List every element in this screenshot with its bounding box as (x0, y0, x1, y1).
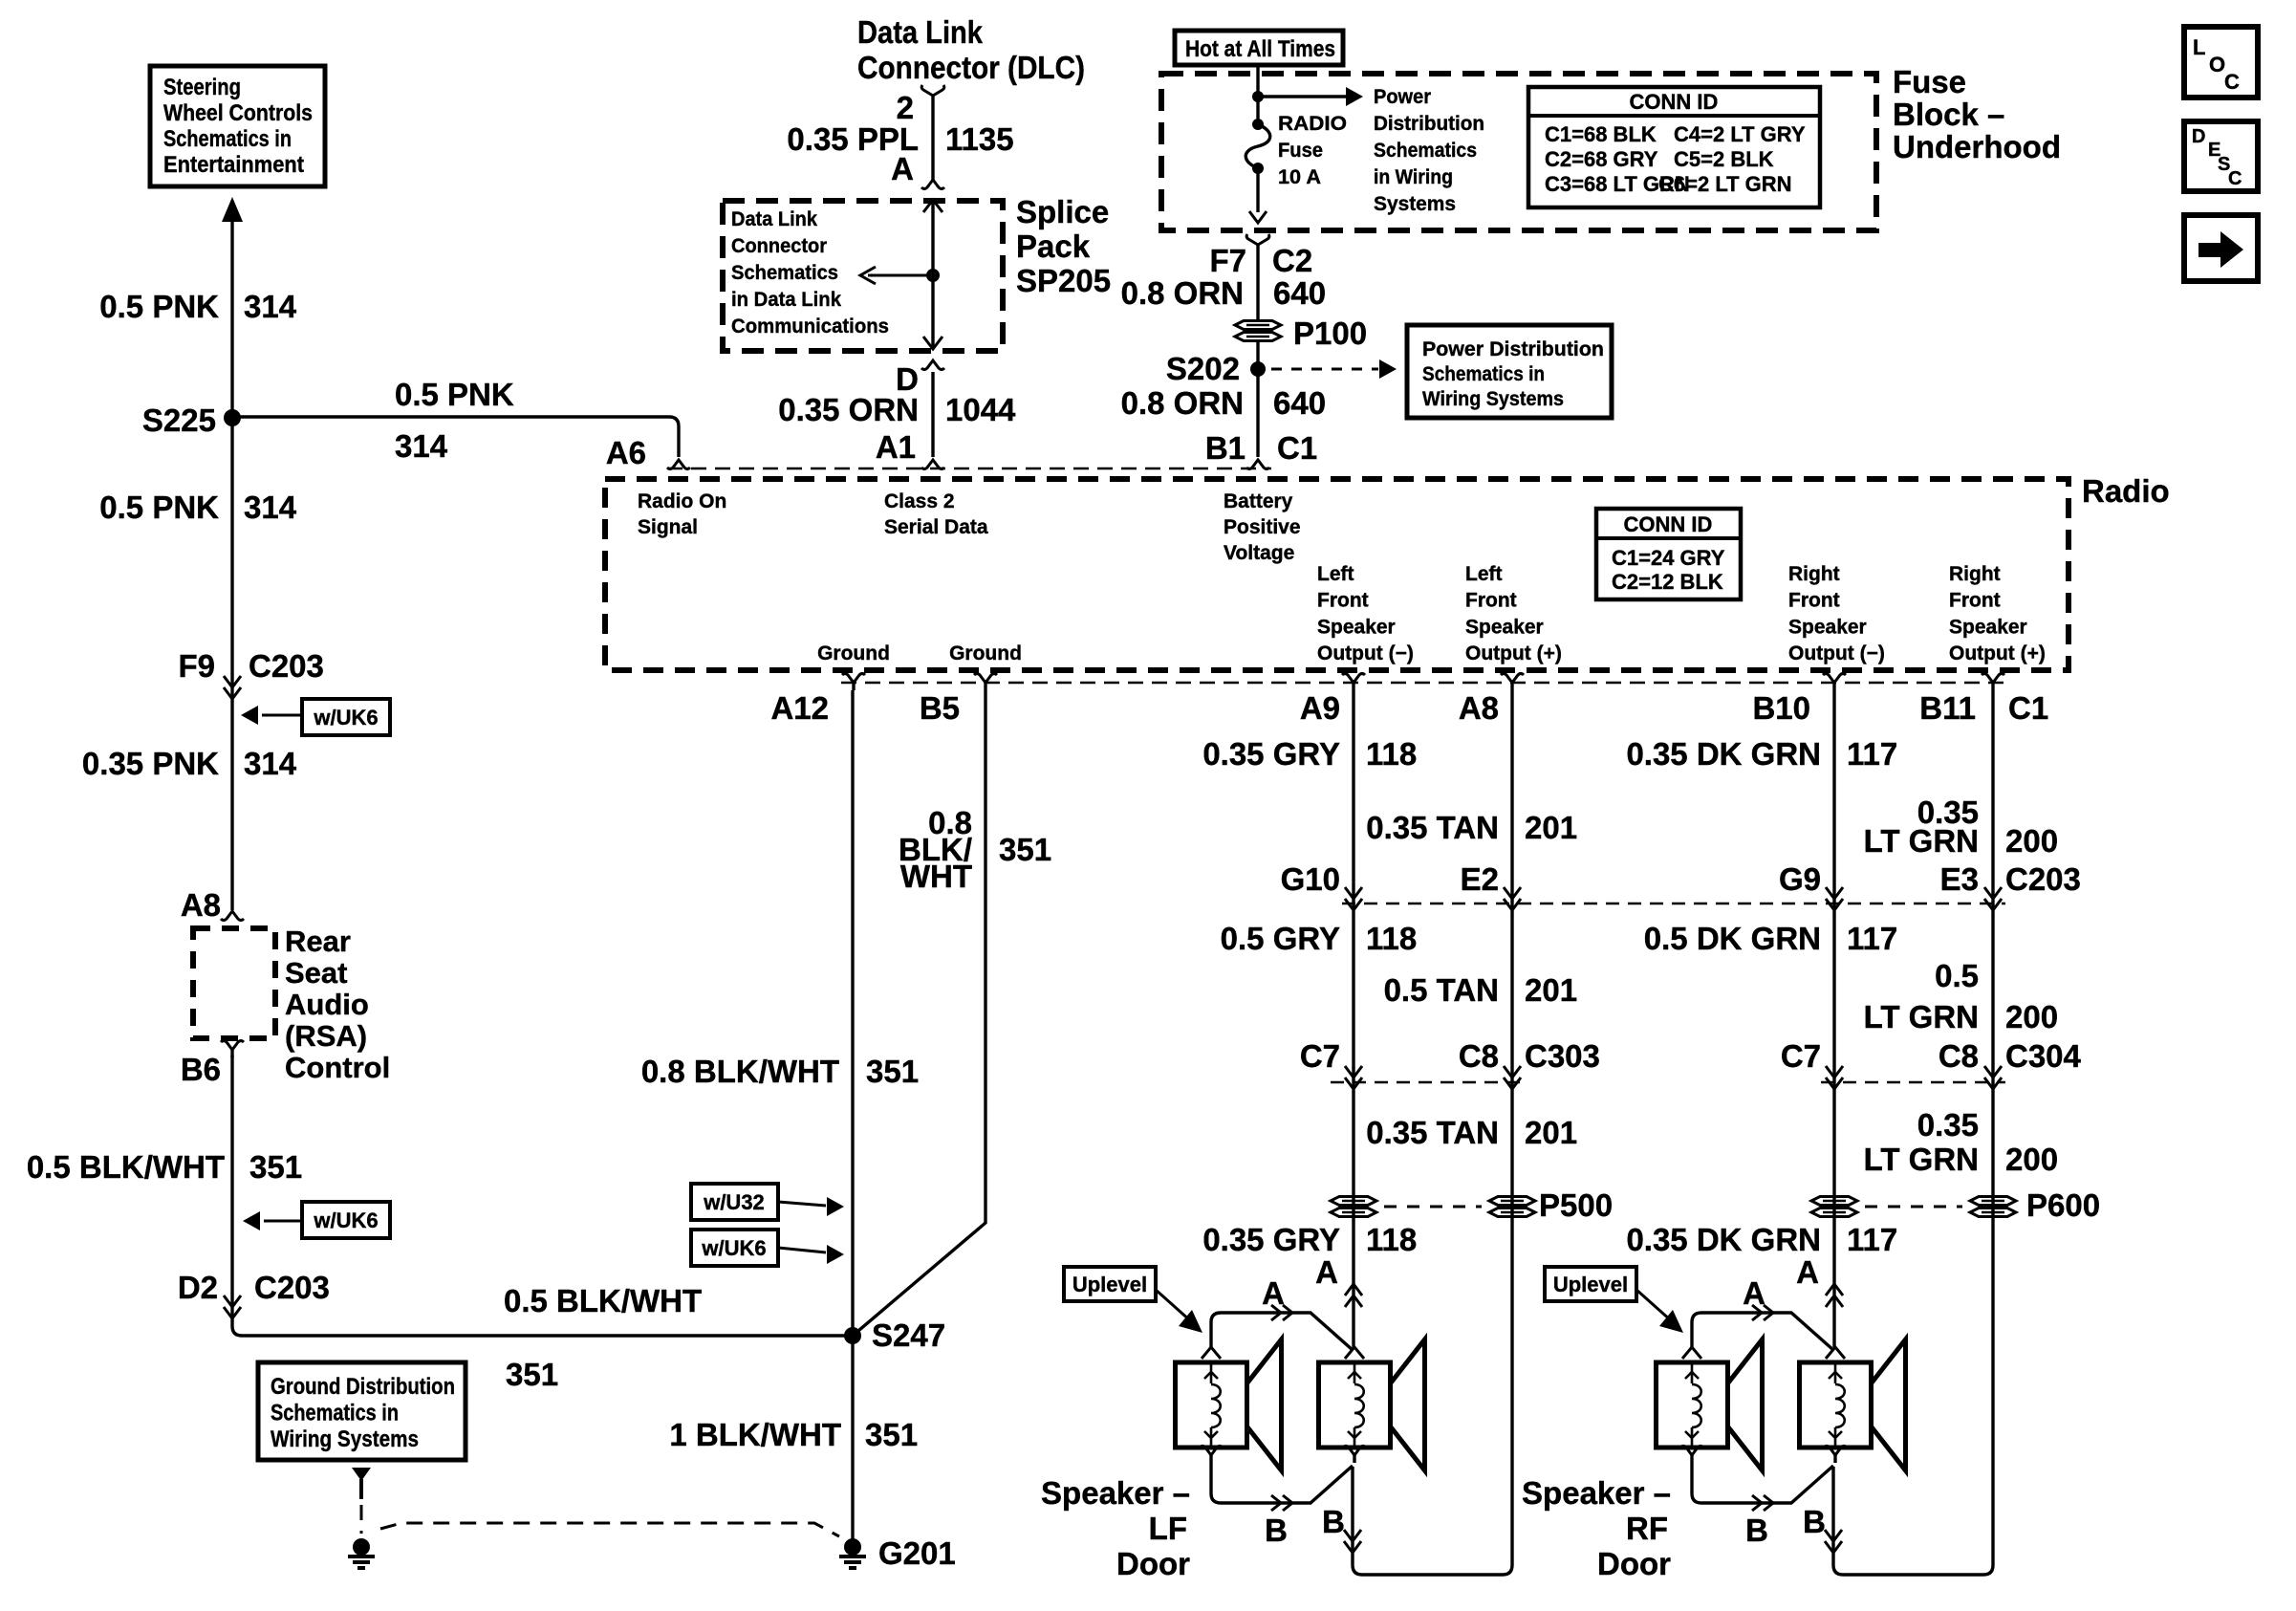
svg-text:Class 2: Class 2 (884, 490, 955, 512)
svg-text:C2: C2 (1272, 243, 1312, 278)
svg-text:Ground Distribution: Ground Distribution (271, 1374, 455, 1400)
connector C303 dashed line (1331, 1081, 1526, 1084)
svg-text:1044: 1044 (945, 392, 1016, 427)
svg-text:Hot at All Times: Hot at All Times (1185, 36, 1335, 62)
svg-text:Rear: Rear (285, 925, 351, 958)
svg-text:A: A (891, 151, 914, 186)
svg-text:w/UK6: w/UK6 (313, 706, 378, 729)
svg-text:A6: A6 (606, 435, 646, 470)
svg-text:B5: B5 (920, 690, 960, 726)
pin B10 (1823, 674, 1846, 684)
svg-text:G201: G201 (878, 1535, 956, 1571)
svg-text:Wiring Systems: Wiring Systems (1422, 388, 1564, 410)
box: Fuse Block - Underhood (dashed) (1161, 74, 1876, 230)
svg-text:Radio On: Radio On (638, 490, 726, 512)
C304 chevrons B11 (1984, 1066, 2002, 1078)
svg-text:in Wiring: in Wiring (1374, 166, 1453, 188)
svg-text:C: C (2224, 70, 2240, 94)
pin 2 of DLC (921, 85, 944, 96)
svg-text:Uplevel: Uplevel (1553, 1273, 1628, 1296)
svg-text:C1: C1 (2008, 690, 2048, 726)
svg-text:Output (−): Output (−) (1788, 642, 1885, 664)
svg-text:G9: G9 (1779, 861, 1821, 897)
svg-text:P600: P600 (2026, 1187, 2100, 1223)
svg-text:B11: B11 (1919, 690, 1976, 726)
svg-text:A12: A12 (770, 690, 829, 726)
wire: splice pack to radio A1 (931, 372, 934, 457)
svg-text:P100: P100 (1293, 316, 1367, 351)
LF branch wire to left speaker (1211, 1313, 1353, 1350)
svg-text:Power Distribution: Power Distribution (1422, 338, 1604, 360)
svg-text:0.35: 0.35 (1917, 1107, 1979, 1143)
wire: P100 to radio B1 (1256, 340, 1259, 457)
svg-text:Schematics in: Schematics in (1422, 363, 1545, 385)
chevrons A on B10 wire (1826, 1284, 1843, 1295)
chevron into LF door speaker (1202, 1347, 1221, 1359)
ground G201 (844, 1538, 861, 1556)
svg-text:Ground: Ground (949, 642, 1022, 664)
svg-text:351: 351 (999, 832, 1051, 867)
svg-text:Schematics in: Schematics in (163, 126, 292, 152)
connector C203 chevrons on F9 wire (224, 676, 241, 687)
connector C304 dashed line (1821, 1081, 2005, 1084)
chevron into RF uplevel speaker (1826, 1347, 1845, 1359)
C203 chevrons A8 (1504, 887, 1521, 899)
svg-text:C2=12 BLK: C2=12 BLK (1612, 570, 1723, 594)
wire: A8 speaker output down and across (1353, 690, 1512, 1575)
svg-text:S247: S247 (872, 1317, 945, 1353)
svg-text:0.5 BLK/WHT: 0.5 BLK/WHT (504, 1283, 702, 1318)
svg-text:C4=2 LT GRY: C4=2 LT GRY (1674, 122, 1806, 146)
svg-text:Entertainment: Entertainment (163, 152, 304, 178)
pin B6 on RSA box (221, 1041, 244, 1051)
svg-text:B: B (1322, 1504, 1345, 1539)
RF B branch wire (1692, 1463, 1833, 1503)
C203 chevrons B11 (1984, 887, 2002, 899)
svg-text:C203: C203 (254, 1270, 330, 1305)
svg-text:E2: E2 (1461, 861, 1499, 897)
chevrons B on RF main wire (1825, 1530, 1842, 1541)
svg-text:Wheel Controls: Wheel Controls (163, 100, 313, 126)
connector P500 (1331, 1197, 1376, 1206)
wire: radio B5 ground wire, jog to S247 (853, 690, 986, 1336)
svg-text:Block –: Block – (1893, 97, 2004, 132)
junction dot (fuse feed) (1252, 91, 1264, 102)
svg-text:w/UK6: w/UK6 (313, 1208, 378, 1232)
arrow down from ground distribution box (352, 1468, 371, 1481)
svg-text:314: 314 (244, 490, 297, 525)
svg-text:0.5 DK GRN: 0.5 DK GRN (1644, 921, 1821, 956)
svg-text:351: 351 (865, 1417, 918, 1452)
box: Radio (dashed) (605, 479, 2069, 670)
arrow from w/UK6 to A12 wire (778, 1248, 826, 1252)
C303 chevrons A8 (1504, 1066, 1521, 1078)
pin F7 C2 (1246, 234, 1269, 245)
thin connector line below radio box (841, 682, 2007, 685)
svg-text:E3: E3 (1940, 861, 1979, 897)
arrow to schematics text in splice pack (868, 274, 933, 277)
svg-text:10 A: 10 A (1278, 166, 1321, 188)
svg-text:Uplevel: Uplevel (1072, 1273, 1147, 1296)
svg-text:C: C (2228, 168, 2242, 189)
splice S247 (844, 1327, 861, 1344)
svg-text:C203: C203 (2005, 861, 2081, 897)
svg-text:Distribution: Distribution (1374, 113, 1484, 135)
svg-text:Communications: Communications (731, 316, 889, 337)
svg-text:0.35 ORN: 0.35 ORN (778, 392, 919, 427)
svg-text:A8: A8 (1459, 690, 1499, 726)
svg-text:C304: C304 (2005, 1038, 2082, 1074)
svg-text:118: 118 (1366, 1222, 1417, 1257)
svg-text:RADIO: RADIO (1278, 113, 1347, 135)
chevrons A on A9 wire (1345, 1284, 1362, 1295)
RF door speaker (1657, 1362, 1728, 1448)
svg-text:314: 314 (395, 428, 448, 464)
chevron into LF uplevel speaker (1345, 1347, 1364, 1359)
svg-text:0.5 PNK: 0.5 PNK (395, 377, 514, 412)
svg-text:A: A (1796, 1254, 1819, 1290)
RF uplevel speaker (1800, 1362, 1872, 1448)
wire: S225 to A6 pin (232, 417, 679, 457)
svg-text:Signal: Signal (638, 516, 698, 538)
svg-text:Data Link: Data Link (857, 14, 984, 50)
svg-text:F7: F7 (1209, 243, 1246, 278)
svg-text:Power: Power (1374, 86, 1431, 108)
svg-text:A: A (1315, 1254, 1338, 1290)
svg-text:Positive: Positive (1224, 516, 1301, 538)
pin below RF uplevel speaker (1824, 1447, 1847, 1456)
pin B11 (1982, 674, 2004, 684)
svg-text:0.8 ORN: 0.8 ORN (1121, 275, 1244, 311)
fuse RADIO 10A (1252, 119, 1264, 130)
box: Splice Pack SP205 (723, 201, 1003, 351)
connector C203 chevrons on D2 wire (224, 1295, 241, 1307)
box w/U32 (691, 1184, 778, 1220)
svg-text:Right: Right (1788, 563, 1840, 585)
svg-text:w/U32: w/U32 (703, 1190, 765, 1214)
connector P600 (1811, 1197, 1857, 1206)
svg-text:P500: P500 (1539, 1187, 1613, 1223)
svg-text:A9: A9 (1300, 690, 1340, 726)
RF branch wire to left speaker (1692, 1313, 1833, 1350)
LF uplevel speaker (1319, 1362, 1391, 1448)
svg-text:351: 351 (506, 1357, 558, 1392)
svg-text:LF: LF (1149, 1511, 1187, 1546)
chevron into RF door speaker (1682, 1347, 1701, 1359)
box w/UK6 lower-left (302, 1202, 390, 1238)
svg-text:Steering: Steering (163, 75, 241, 100)
svg-text:LT GRN: LT GRN (1864, 823, 1979, 859)
svg-text:Voltage: Voltage (1224, 542, 1294, 564)
svg-text:118: 118 (1366, 736, 1417, 772)
svg-text:1135: 1135 (945, 121, 1014, 157)
svg-text:Schematics in: Schematics in (271, 1401, 399, 1426)
svg-text:C8: C8 (1939, 1038, 1979, 1074)
svg-text:0.8 ORN: 0.8 ORN (1121, 385, 1244, 421)
svg-text:Front: Front (1317, 590, 1369, 612)
svg-text:S225: S225 (142, 403, 216, 438)
C203 chevrons B10 (1826, 887, 1843, 899)
wire: fuse to F7 (1256, 168, 1259, 212)
svg-text:D2: D2 (178, 1270, 218, 1305)
box w/UK6 upper (302, 699, 390, 735)
box: Steering Wheel Controls Schematics in Entertainment (150, 66, 325, 186)
pin A6 (667, 460, 690, 469)
svg-text:Door: Door (1597, 1546, 1671, 1581)
svg-text:C5=2 BLK: C5=2 BLK (1674, 147, 1774, 171)
svg-text:0.5: 0.5 (1935, 958, 1979, 993)
svg-text:Speaker –: Speaker – (1522, 1475, 1671, 1511)
splice S202 (1250, 361, 1266, 377)
svg-text:D: D (2192, 126, 2205, 147)
box: Power Distribution Schematics in Wiring Systems (1407, 325, 1612, 418)
dashed link to ground symbols (360, 1505, 363, 1534)
icon arrow (2184, 215, 2258, 281)
svg-text:C203: C203 (249, 648, 324, 684)
svg-text:Front: Front (1465, 590, 1517, 612)
icon LOC (2184, 27, 2258, 98)
box: Hot at All Times (1175, 31, 1343, 65)
svg-text:117: 117 (1847, 736, 1897, 772)
svg-text:B: B (1745, 1513, 1768, 1548)
svg-text:C7: C7 (1781, 1038, 1821, 1074)
svg-text:RF: RF (1626, 1511, 1668, 1546)
svg-text:B: B (1265, 1513, 1288, 1548)
C203 chevrons A9 (1345, 887, 1362, 899)
svg-text:Connector (DLC): Connector (DLC) (857, 50, 1085, 85)
wire: B11 speaker output down and across (1833, 690, 1993, 1575)
box Uplevel (LF) (1064, 1267, 1156, 1301)
svg-text:0.35 TAN: 0.35 TAN (1366, 1115, 1499, 1150)
svg-text:Speaker: Speaker (1465, 616, 1544, 638)
box: Rear Seat Audio (RSA) Control (193, 928, 275, 1038)
svg-text:S202: S202 (1166, 351, 1240, 386)
svg-text:Output (−): Output (−) (1317, 642, 1414, 664)
svg-text:B1: B1 (1205, 430, 1245, 466)
svg-text:Ground: Ground (817, 642, 890, 664)
svg-text:200: 200 (2005, 999, 2058, 1034)
svg-text:F9: F9 (178, 648, 215, 684)
svg-text:Left: Left (1317, 563, 1354, 585)
arrow from w/UK6 to wire (262, 714, 302, 717)
svg-text:A1: A1 (876, 429, 916, 465)
svg-text:117: 117 (1847, 921, 1897, 956)
svg-text:Speaker: Speaker (1949, 616, 2027, 638)
svg-text:117: 117 (1847, 1222, 1897, 1257)
svg-text:201: 201 (1525, 1115, 1577, 1150)
thin connector line above radio box (667, 468, 1271, 470)
wire: S247 down to G201 (851, 1336, 854, 1541)
svg-text:in Data Link: in Data Link (731, 289, 841, 311)
svg-text:0.35 DK GRN: 0.35 DK GRN (1626, 736, 1821, 772)
svg-text:w/UK6: w/UK6 (701, 1236, 766, 1260)
svg-text:Schematics: Schematics (731, 262, 838, 284)
svg-text:Door: Door (1116, 1546, 1190, 1581)
svg-text:Output (+): Output (+) (1465, 642, 1562, 664)
svg-text:CONN ID: CONN ID (1630, 90, 1719, 114)
svg-text:0.5 PNK: 0.5 PNK (99, 490, 219, 525)
svg-text:Splice: Splice (1016, 194, 1109, 229)
pin below LF uplevel speaker (1343, 1447, 1366, 1456)
svg-text:CONN ID: CONN ID (1624, 512, 1713, 536)
svg-text:Speaker: Speaker (1788, 616, 1867, 638)
svg-text:C2=68 GRY: C2=68 GRY (1545, 147, 1658, 171)
svg-text:351: 351 (249, 1149, 302, 1185)
svg-text:640: 640 (1273, 275, 1326, 311)
arrow from w/UK6 lower to wire (264, 1220, 302, 1223)
svg-text:0.35 GRY: 0.35 GRY (1202, 736, 1340, 772)
wire: B10 speaker output down to RF speakers (1832, 690, 1835, 1347)
pin B5 (974, 674, 997, 684)
C303 chevrons A9 (1345, 1066, 1362, 1078)
chevrons on RF B branch (1752, 1495, 1762, 1511)
pin below RF door speaker (1680, 1447, 1703, 1456)
svg-text:314: 314 (244, 289, 297, 324)
svg-text:WHT: WHT (900, 859, 972, 894)
svg-text:Schematics: Schematics (1374, 140, 1477, 162)
box: Ground Distribution Schematics in Wiring Systems (258, 1362, 466, 1460)
wire: hot feed into fuse block (1256, 65, 1259, 124)
svg-text:SP205: SP205 (1016, 263, 1111, 298)
svg-text:0.5 TAN: 0.5 TAN (1384, 972, 1499, 1008)
svg-text:Seat: Seat (285, 956, 347, 990)
svg-text:Right: Right (1949, 563, 2001, 585)
svg-text:0.35 DK GRN: 0.35 DK GRN (1626, 1222, 1821, 1257)
svg-text:Speaker –: Speaker – (1041, 1475, 1190, 1511)
table CONN ID (radio) (1596, 509, 1741, 599)
svg-text:Pack: Pack (1016, 229, 1091, 264)
svg-text:(RSA): (RSA) (285, 1019, 367, 1053)
pin B1 (1246, 460, 1269, 469)
svg-text:0.35 GRY: 0.35 GRY (1202, 1222, 1340, 1257)
svg-text:LT GRN: LT GRN (1864, 1142, 1979, 1177)
svg-text:Output (+): Output (+) (1949, 642, 2046, 664)
connector P100 (1235, 321, 1281, 330)
svg-text:Front: Front (1949, 590, 2001, 612)
svg-text:200: 200 (2005, 823, 2058, 859)
box Uplevel (RF) (1545, 1267, 1636, 1301)
wire: A9 speaker output down to LF speakers (1352, 690, 1354, 1347)
svg-text:Fuse: Fuse (1893, 64, 1966, 99)
svg-text:B6: B6 (181, 1052, 221, 1087)
arrow from w/U32 to A12 wire (778, 1202, 826, 1206)
svg-text:Serial Data: Serial Data (884, 516, 988, 538)
pin D below splice pack (921, 360, 944, 370)
svg-text:201: 201 (1525, 972, 1577, 1008)
wire inside splice pack (931, 201, 934, 349)
svg-text:Fuse: Fuse (1278, 140, 1323, 162)
arrow Uplevel LF (1156, 1290, 1191, 1321)
chevrons on LF branch (1271, 1305, 1281, 1320)
svg-text:Underhood: Underhood (1893, 129, 2061, 164)
svg-text:O: O (2209, 53, 2225, 76)
svg-text:0.35 TAN: 0.35 TAN (1366, 810, 1499, 845)
svg-text:0.5 GRY: 0.5 GRY (1221, 921, 1340, 956)
arrow Uplevel RF (1636, 1290, 1672, 1321)
pin A9 (1342, 674, 1365, 684)
arrow to power distribution (in fuse block) (1258, 95, 1346, 98)
svg-text:B10: B10 (1752, 690, 1810, 726)
svg-text:0.8 BLK/WHT: 0.8 BLK/WHT (641, 1054, 839, 1089)
svg-text:G10: G10 (1281, 861, 1340, 897)
svg-text:Battery: Battery (1224, 490, 1293, 512)
wire: B6 down to D2 and over to S247 (232, 1056, 853, 1336)
dashed arrow S202 to power distribution box (1271, 368, 1378, 371)
connector C203 dashed line (1342, 903, 2005, 905)
svg-text:LT GRN: LT GRN (1864, 999, 1979, 1034)
svg-text:Connector: Connector (731, 235, 827, 257)
svg-text:L: L (2193, 35, 2205, 59)
svg-text:Systems: Systems (1374, 193, 1456, 215)
svg-text:C1: C1 (1277, 430, 1317, 466)
chevrons on LF B branch (1271, 1495, 1281, 1511)
pin A12 (842, 674, 865, 684)
svg-text:200: 200 (2005, 1142, 2058, 1177)
svg-text:640: 640 (1273, 385, 1326, 421)
ground symbol (left) (353, 1538, 370, 1556)
table CONN ID (fuse block) (1528, 87, 1820, 207)
svg-text:Audio: Audio (285, 988, 369, 1021)
svg-text:2: 2 (897, 90, 914, 125)
wire: steering arrow to S225 (230, 222, 233, 417)
pin A1 (921, 460, 944, 469)
svg-text:0.5 PNK: 0.5 PNK (99, 289, 219, 324)
pin A8 (1501, 674, 1524, 684)
pin A into splice pack (921, 180, 944, 189)
arrow up to steering box (222, 196, 243, 198)
pin A8 on RSA box (221, 911, 244, 921)
svg-text:C8: C8 (1459, 1038, 1499, 1074)
svg-text:1 BLK/WHT: 1 BLK/WHT (669, 1417, 841, 1452)
splice pack junction dot (926, 269, 940, 282)
svg-text:C7: C7 (1300, 1038, 1340, 1074)
icon DESC (2184, 121, 2258, 191)
svg-text:B: B (1803, 1504, 1826, 1539)
svg-text:Front: Front (1788, 590, 1840, 612)
LF B branch wire (1211, 1463, 1353, 1503)
svg-text:Wiring Systems: Wiring Systems (271, 1426, 419, 1452)
svg-text:Control: Control (285, 1051, 390, 1084)
svg-text:C1=24 GRY: C1=24 GRY (1612, 546, 1725, 570)
box w/UK6 (near S247) (691, 1230, 778, 1266)
chevrons on RF branch (1752, 1305, 1762, 1320)
wire: radio A12 ground wire down to S247 (851, 690, 854, 1336)
chevrons B on LF main wire (1344, 1530, 1361, 1541)
svg-text:Data Link: Data Link (731, 208, 817, 230)
svg-text:118: 118 (1366, 921, 1417, 956)
svg-text:314: 314 (244, 746, 297, 781)
svg-text:C6=2 LT GRN: C6=2 LT GRN (1658, 172, 1792, 196)
svg-text:C303: C303 (1525, 1038, 1600, 1074)
C304 chevrons B10 (1826, 1066, 1843, 1078)
svg-text:0.35 PNK: 0.35 PNK (82, 746, 219, 781)
svg-text:Radio: Radio (2082, 473, 2170, 509)
svg-text:A8: A8 (181, 887, 221, 923)
svg-text:0.5 BLK/WHT: 0.5 BLK/WHT (27, 1149, 225, 1185)
svg-text:Speaker: Speaker (1317, 616, 1396, 638)
LF door speaker (1176, 1362, 1247, 1448)
wire: F7 to P100 (1256, 245, 1259, 322)
splice S225 (224, 409, 241, 426)
svg-text:Left: Left (1465, 563, 1503, 585)
svg-text:C1=68 BLK: C1=68 BLK (1545, 122, 1657, 146)
wire: DLC to splice pack (931, 96, 934, 180)
pin below LF door speaker (1200, 1447, 1223, 1456)
svg-text:351: 351 (866, 1054, 919, 1089)
svg-text:201: 201 (1525, 810, 1577, 845)
wire: S225 down to F9 (230, 417, 233, 910)
